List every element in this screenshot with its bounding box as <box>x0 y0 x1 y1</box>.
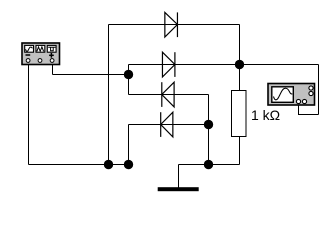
svg-text:1 kΩ: 1 kΩ <box>251 107 280 123</box>
